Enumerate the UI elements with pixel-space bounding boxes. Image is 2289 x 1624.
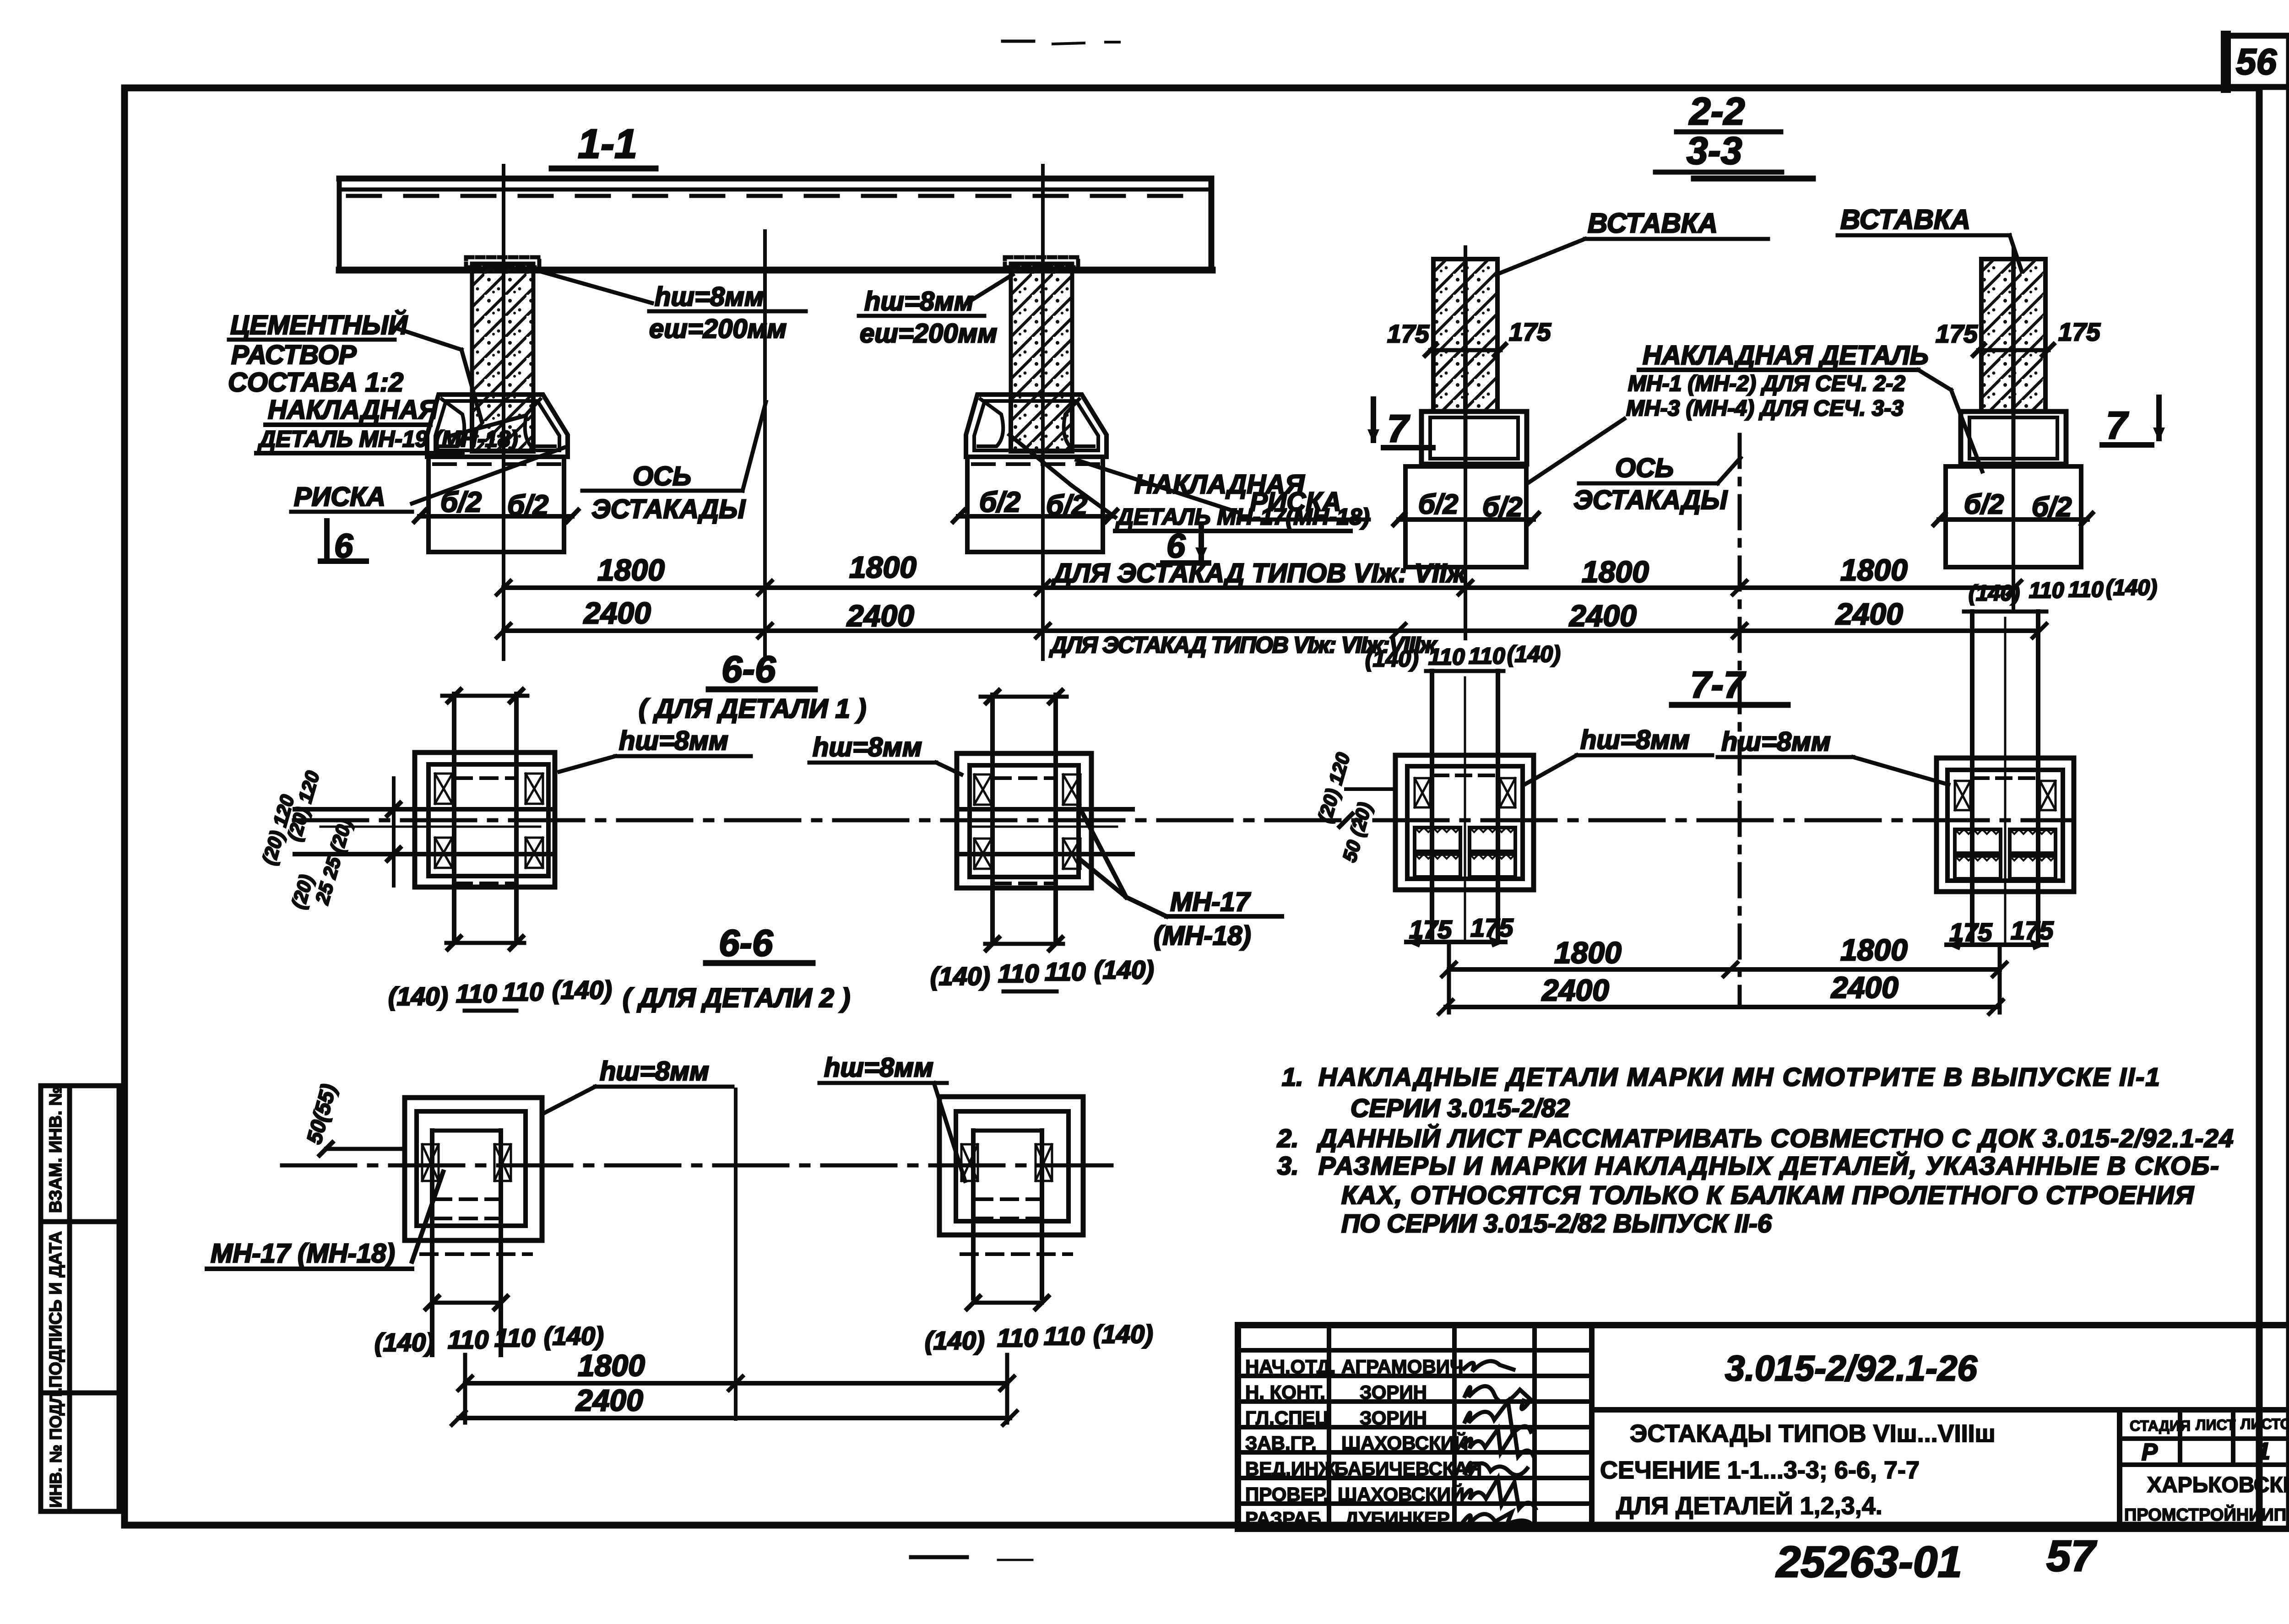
svg-text:110: 110 <box>494 1323 535 1352</box>
svg-text:1800: 1800 <box>578 1348 645 1382</box>
svg-text:1800: 1800 <box>1840 933 1908 967</box>
svg-text:hш=8мм: hш=8мм <box>619 726 728 756</box>
section 2-2 / 3-3 title <box>1655 90 1813 179</box>
document number 3.015-2/92.1-26 <box>1592 1348 2289 1410</box>
svg-text:НАКЛАДНАЯ: НАКЛАДНАЯ <box>268 395 439 425</box>
svg-text:АГРАМОВИЧ: АГРАМОВИЧ <box>1341 1356 1463 1377</box>
svg-text:1.: 1. <box>1282 1062 1303 1091</box>
svg-text:1800: 1800 <box>1582 555 1649 589</box>
svg-text:hш=8мм: hш=8мм <box>813 732 922 762</box>
section mark 6 (right) <box>1163 525 1209 565</box>
bottom dims of plan 6-6 left: (140) 110 110 (140) <box>388 975 612 1011</box>
signature table row labels and names <box>1245 1356 1482 1529</box>
label: Цементный раствор состава 1:2 <box>228 310 482 421</box>
svg-text:175: 175 <box>1509 318 1551 346</box>
svg-text:ШАХОВСКИЙ: ШАХОВСКИЙ <box>1338 1483 1465 1505</box>
stray scan marks top center <box>1003 40 1034 43</box>
svg-text:ЗОРИН: ЗОРИН <box>1360 1381 1427 1403</box>
svg-text:(140): (140) <box>1507 641 1561 667</box>
svg-text:РИСКА: РИСКА <box>1250 487 1341 517</box>
svg-text:ОСЬ: ОСЬ <box>633 461 691 491</box>
svg-text:2400: 2400 <box>583 596 651 630</box>
sheet number box 56 <box>2226 36 2289 88</box>
svg-text:6-6: 6-6 <box>719 922 774 964</box>
svg-text:РАСТВОР: РАСТВОР <box>231 340 357 370</box>
svg-text:ЛИСТ: ЛИСТ <box>2196 1417 2236 1433</box>
svg-text:2400: 2400 <box>575 1383 643 1417</box>
small stray marks bottom center <box>911 1555 967 1559</box>
svg-text:57: 57 <box>2046 1532 2097 1581</box>
description: Эстакады типов ... <box>1600 1420 1996 1520</box>
svg-text:ПО СЕРИИ 3.015-2/82 ВЫПУСК: ПО СЕРИИ 3.015-2/82 ВЫПУСК II-6 <box>1341 1209 1772 1238</box>
section 7-7 title <box>1672 664 1788 706</box>
svg-text:2.: 2. <box>1277 1124 1299 1153</box>
label: Риска (right) <box>1077 460 1369 520</box>
section mark 6 (left) <box>320 521 366 565</box>
svg-text:МН-1 (МН-2) ДЛЯ СЕЧ. 2-2: МН-1 (МН-2) ДЛЯ СЕЧ. 2-2 <box>1628 372 1905 396</box>
svg-text:7: 7 <box>1387 407 1410 450</box>
pier 2 axis line <box>1041 166 1045 659</box>
pier 4 axis line <box>2012 247 2015 612</box>
svg-text:МН-17 (МН-18): МН-17 (МН-18) <box>211 1239 395 1268</box>
pier 1 of section 1-1 (column, cap, foundation) <box>414 257 578 552</box>
svg-text:ДЛЯ ЭСТАКАД ТИПОВ VIж: VIIж: ДЛЯ ЭСТАКАД ТИПОВ VIж: VIIж <box>1051 558 1468 588</box>
section 1-1 title <box>552 121 656 168</box>
svg-text:175: 175 <box>1387 319 1430 348</box>
svg-text:hш=8мм: hш=8мм <box>600 1056 709 1086</box>
svg-text:110: 110 <box>997 1323 1038 1352</box>
svg-text:175: 175 <box>1936 319 1978 348</box>
label: Вставка (right) <box>1838 204 2022 271</box>
label hш=8мм (plan detail2 right) <box>819 1053 965 1181</box>
svg-text:ГЛ.СПЕЦ: ГЛ.СПЕЦ <box>1245 1407 1329 1429</box>
svg-text:hш=8мм: hш=8мм <box>1580 725 1690 755</box>
svg-text:110: 110 <box>998 959 1039 988</box>
trestle mid axis (section 1-1) <box>763 231 767 659</box>
signatures (squiggles) <box>1461 1361 1535 1526</box>
svg-text:110: 110 <box>2068 578 2104 602</box>
svg-text:б/2: б/2 <box>507 490 548 521</box>
label hш=8мм (plan detail2 left) <box>544 1056 732 1113</box>
svg-text:б/2: б/2 <box>1418 489 1458 520</box>
svg-text:(МН-18): (МН-18) <box>1154 921 1251 951</box>
label hш=8мм (plan 6-6 right) <box>809 732 961 774</box>
plan 6-6 detail 1, right (cross plan) <box>957 690 1133 950</box>
pier 1 axis line <box>502 166 505 659</box>
top dims of plan 7-7 left: (140) 110 110 (140) <box>1365 641 1561 671</box>
label: Вставка (left) <box>1496 208 1768 275</box>
svg-text:110: 110 <box>1469 643 1505 669</box>
bottom dims of plan 6-6 right: (140) 110 110 (140) <box>930 955 1154 991</box>
title block outline <box>1238 1325 2289 1529</box>
plan 6-6 detail 2, left <box>405 1098 542 1355</box>
svg-text:2400: 2400 <box>1568 599 1637 633</box>
svg-text:2400: 2400 <box>1835 597 1903 631</box>
svg-text:МН-17: МН-17 <box>1170 887 1251 917</box>
svg-text:НАКЛАДНЫЕ ДЕТАЛИ МАРКИ МН С: НАКЛАДНЫЕ ДЕТАЛИ МАРКИ МН СМОТРИТЕ В ВЫП… <box>1318 1062 2161 1091</box>
svg-text:hш=8мм: hш=8мм <box>1721 727 1831 757</box>
svg-text:ЛИСТОВ: ЛИСТОВ <box>2240 1416 2289 1432</box>
svg-text:(140): (140) <box>552 975 612 1004</box>
svg-text:(140): (140) <box>388 982 448 1011</box>
svg-text:3-3: 3-3 <box>1687 129 1742 172</box>
svg-text:ДУБИНКЕР: ДУБИНКЕР <box>1345 1508 1450 1529</box>
title block signature table <box>1238 1325 1592 1529</box>
svg-text:ЭСТАКАДЫ ТИПОВ VIш...VIIIш: ЭСТАКАДЫ ТИПОВ VIш...VIIIш <box>1630 1420 1996 1447</box>
svg-text:ХАРЬКОВСКИЙ: ХАРЬКОВСКИЙ <box>2147 1472 2289 1497</box>
svg-text:СЕРИИ 3.015-2/82: СЕРИИ 3.015-2/82 <box>1351 1093 1570 1122</box>
rotated dim 50(55) left of plan <box>302 1082 405 1155</box>
label: Ось эстакады (left) <box>582 402 766 524</box>
label: Накладная деталь МН-19 (МН-18) <box>256 395 526 453</box>
svg-text:110: 110 <box>1044 1321 1085 1350</box>
label hш=8мм (plan 7-7 right) <box>1718 727 1948 785</box>
svg-text:РАЗМЕРЫ И МАРКИ НАКЛАДНЫХ ДЕ: РАЗМЕРЫ И МАРКИ НАКЛАДНЫХ ДЕТАЛЕЙ, УКАЗА… <box>1318 1151 2220 1180</box>
centerline through 6-6 detail-2 row (dash-dot) <box>282 1164 1112 1168</box>
svg-text:б/2: б/2 <box>979 487 1020 518</box>
svg-text:110: 110 <box>456 979 497 1008</box>
svg-text:( ДЛЯ ДЕТАЛИ 1 ): ( ДЛЯ ДЕТАЛИ 1 ) <box>639 694 866 724</box>
svg-text:1-1: 1-1 <box>578 121 637 167</box>
label МН-17 (МН-18) with leaders <box>1079 806 1282 951</box>
svg-text:еш=200мм: еш=200мм <box>860 319 997 348</box>
svg-text:ПРОВЕР.: ПРОВЕР. <box>1245 1483 1329 1505</box>
svg-text:(140): (140) <box>930 962 990 991</box>
svg-text:110: 110 <box>448 1325 488 1354</box>
svg-text:(140): (140) <box>374 1328 434 1357</box>
svg-text:ЗОРИН: ЗОРИН <box>1360 1407 1427 1429</box>
svg-text:ВСТАВКА: ВСТАВКА <box>1588 208 1718 238</box>
svg-text:1800: 1800 <box>597 553 665 587</box>
trestle axis (right group, dash-dot) <box>1738 435 1742 1007</box>
svg-text:hш=8мм: hш=8мм <box>824 1053 933 1083</box>
svg-text:ЗАВ.ГР.: ЗАВ.ГР. <box>1245 1432 1317 1454</box>
svg-text:( ДЛЯ ДЕТАЛИ 2 ): ( ДЛЯ ДЕТАЛИ 2 ) <box>623 983 850 1013</box>
svg-text:3.: 3. <box>1277 1151 1299 1180</box>
svg-text:ВСТАВКА: ВСТАВКА <box>1840 204 1970 235</box>
section 6-6 title (для детали 2) <box>623 922 850 1013</box>
label hш=8мм (plan 6-6 left) <box>559 726 751 772</box>
svg-text:25263-01: 25263-01 <box>1775 1537 1962 1586</box>
svg-text:ДЛЯ ДЕТАЛЕЙ 1,2,3,4.: ДЛЯ ДЕТАЛЕЙ 1,2,3,4. <box>1616 1492 1882 1520</box>
stage / sheet header cells <box>2120 1410 2289 1529</box>
bottom dims plan detail2 right: (140) 110 110 (140) <box>925 1320 1153 1355</box>
svg-text:175: 175 <box>1949 918 1992 947</box>
svg-text:ПРОМСТРОЙНИИПРОЕКТ: ПРОМСТРОЙНИИПРОЕКТ <box>2124 1504 2289 1525</box>
rotated dims left of plan 7-7 (120, 50) <box>1313 750 1395 864</box>
svg-text:(140): (140) <box>1969 581 2020 606</box>
svg-text:ЭСТАКАДЫ: ЭСТАКАДЫ <box>1573 485 1728 515</box>
svg-text:hш=8мм: hш=8мм <box>864 287 974 316</box>
svg-text:НАЧ.ОТД.: НАЧ.ОТД. <box>1245 1356 1336 1377</box>
beam of section 1-1 <box>339 179 1212 270</box>
svg-text:Н. КОНТ.: Н. КОНТ. <box>1245 1381 1325 1403</box>
svg-text:175: 175 <box>1409 915 1452 944</box>
section 6-6 title (для детали 1) <box>639 649 866 724</box>
svg-text:2-2: 2-2 <box>1688 90 1745 133</box>
svg-text:РАЗРАБ.: РАЗРАБ. <box>1245 1508 1326 1529</box>
svg-text:(140): (140) <box>925 1326 985 1355</box>
svg-text:1800: 1800 <box>1554 936 1622 969</box>
section mark 7 (left) <box>1367 399 1433 450</box>
plan 7-7 left (column in socket) <box>1395 671 1534 947</box>
plan 7-7 right (column in socket) <box>1936 612 2074 950</box>
svg-text:СОСТАВА 1:2: СОСТАВА 1:2 <box>228 368 403 397</box>
label: hш=8мм еш=200мм (pier 1) <box>536 270 806 344</box>
plan 6-6 detail 1, left (cross plan) <box>295 689 555 949</box>
label: hш=8мм еш=200мм (pier 2) <box>859 275 1013 348</box>
svg-text:1800: 1800 <box>849 550 917 584</box>
svg-text:еш=200мм: еш=200мм <box>649 314 787 344</box>
bottom dimension chain 1800 / 2400 (7-7 row) <box>1439 933 2007 1014</box>
svg-text:7-7: 7-7 <box>1690 664 1746 706</box>
dimension row 2400+2400 (lower chain) <box>497 596 2046 638</box>
bottom dims plan detail2 left: (140) 110 110 (140) <box>374 1321 604 1357</box>
label: Риска (left) <box>291 448 564 512</box>
label: Накладная деталь МН-1(МН-2) для сеч.2-2 / МН-3(МН-4) для сеч.3-3 <box>1528 341 1982 483</box>
svg-text:6: 6 <box>334 527 353 565</box>
svg-text:б/2: б/2 <box>2032 492 2072 522</box>
svg-text:1800: 1800 <box>1840 553 1908 587</box>
svg-text:110: 110 <box>1428 644 1465 670</box>
svg-text:7: 7 <box>2106 404 2129 447</box>
svg-text:110: 110 <box>1045 957 1085 986</box>
svg-text:56: 56 <box>2236 41 2277 82</box>
left margin stamp box <box>41 1086 119 1511</box>
svg-text:(140): (140) <box>1094 955 1154 984</box>
svg-text:6-6: 6-6 <box>721 649 776 690</box>
svg-text:(140): (140) <box>1093 1320 1153 1348</box>
pier 3 axis line <box>1464 247 1467 639</box>
svg-text:МН-3 (МН-4) ДЛЯ СЕЧ. 3-3: МН-3 (МН-4) ДЛЯ СЕЧ. 3-3 <box>1626 396 1904 421</box>
label: Накладная деталь МН-17 (МН-18) pier2 <box>1009 435 1370 531</box>
svg-text:(140): (140) <box>544 1321 604 1350</box>
svg-text:3.015-2/92.1-26: 3.015-2/92.1-26 <box>1725 1348 1977 1388</box>
dimension row 1800+1800 (upper chain) <box>497 550 2021 595</box>
svg-text:РИСКА: РИСКА <box>294 482 385 512</box>
svg-text:СЕЧЕНИЕ 1-1...3-3; 6-6, 7-7: СЕЧЕНИЕ 1-1...3-3; 6-6, 7-7 <box>1600 1456 1920 1484</box>
top dims of plan 7-7 right: (140) 110 110(140) <box>1964 576 2157 612</box>
plan 6-6 detail 2, right <box>939 1097 1083 1309</box>
svg-text:175: 175 <box>1470 913 1513 942</box>
svg-text:СТАДИЯ: СТАДИЯ <box>2130 1418 2191 1434</box>
centerline through 6-6 / 7-7 plan row (dash-dot) <box>294 818 2074 823</box>
section mark 7 (right) <box>2102 397 2165 447</box>
svg-text:ЦЕМЕНТНЫЙ: ЦЕМЕНТНЫЙ <box>230 310 408 340</box>
svg-text:ПОДПИСЬ И ДАТА: ПОДПИСЬ И ДАТА <box>46 1231 65 1388</box>
svg-text:НАКЛАДНАЯ ДЕТАЛЬ: НАКЛАДНАЯ ДЕТАЛЬ <box>1643 341 1929 370</box>
svg-text:1: 1 <box>2257 1438 2270 1465</box>
bottom dimension chain 1800 / 2400 (detail 2 row) <box>452 1089 1017 1425</box>
label hш=8мм (plan 7-7 left) <box>1524 725 1712 785</box>
svg-text:175: 175 <box>2058 318 2101 346</box>
svg-text:БАБИЧЕВСКАЯ: БАБИЧЕВСКАЯ <box>1334 1458 1482 1479</box>
svg-text:ДАННЫЙ ЛИСТ РАССМАТРИВАТЬ СОВМ: ДАННЫЙ ЛИСТ РАССМАТРИВАТЬ СОВМЕСТНО С ДО… <box>1317 1124 2234 1153</box>
pier 2 of section 1-1 (column, cap, foundation) <box>953 257 1117 552</box>
pier 4 of section 2-2/3-3 (column with insert, steel cap, foundation) <box>1934 259 2101 567</box>
svg-text:2400: 2400 <box>1541 973 1609 1007</box>
svg-text:2400: 2400 <box>846 599 914 633</box>
svg-text:2400: 2400 <box>1830 970 1898 1004</box>
svg-text:(140): (140) <box>1365 646 1419 671</box>
label: Ось эстакады (right) <box>1573 453 1741 515</box>
svg-text:ОСЬ: ОСЬ <box>1615 453 1674 483</box>
svg-text:ШАХОВСКИЙ: ШАХОВСКИЙ <box>1341 1432 1468 1454</box>
svg-text:175: 175 <box>2011 916 2054 945</box>
svg-text:ВЕД.ИНЖ: ВЕД.ИНЖ <box>1245 1458 1336 1479</box>
svg-text:(140): (140) <box>2106 576 2157 600</box>
svg-text:б/2: б/2 <box>1482 492 1522 522</box>
svg-text:Р: Р <box>2142 1439 2158 1466</box>
svg-text:ВЗАМ. ИНВ. №: ВЗАМ. ИНВ. № <box>46 1086 65 1213</box>
svg-text:hш=8мм: hш=8мм <box>655 282 764 312</box>
svg-text:КАХ, ОТНОСЯТСЯ ТОЛЬКО К БАЛК: КАХ, ОТНОСЯТСЯ ТОЛЬКО К БАЛКАМ ПРОЛЕТНОГ… <box>1341 1180 2194 1209</box>
svg-text:ИНВ. № ПОДЛ.: ИНВ. № ПОДЛ. <box>46 1388 65 1508</box>
organization: Харьковский Промстройниипроект <box>2124 1472 2289 1525</box>
label МН-17 (МН-18) detail2 <box>207 1172 443 1269</box>
svg-text:110: 110 <box>503 977 543 1006</box>
svg-text:б/2: б/2 <box>1964 489 2004 520</box>
svg-text:110: 110 <box>2029 579 2064 603</box>
rotated dims left of plan 6-6 (120, 25 25 (20)) <box>258 769 356 911</box>
svg-text:ЭСТАКАДЫ: ЭСТАКАДЫ <box>591 494 746 524</box>
pier 3 of section 2-2/3-3 (column with insert, steel cap, foundation) <box>1387 259 1551 567</box>
